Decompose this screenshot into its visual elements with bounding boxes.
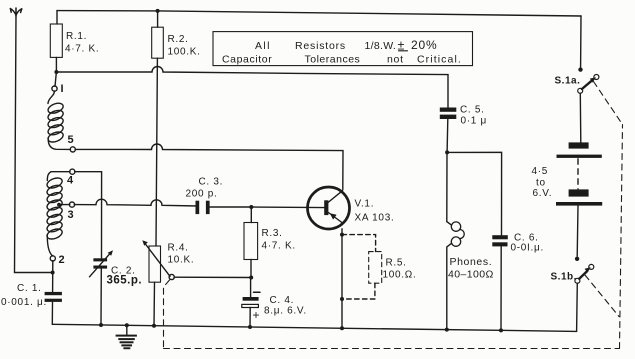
- resistor R2: [152, 9, 201, 58]
- switch S1a: [555, 16, 599, 93]
- wire emitter to bottom bus: [341, 229, 343, 329]
- svg-text:C. 4.: C. 4.: [270, 295, 295, 306]
- wire S1a to battery: [579, 93, 582, 142]
- wire terminal4 to C2 top: [75, 172, 102, 258]
- capacitor C6: [492, 233, 544, 331]
- capacitor C5: [440, 75, 487, 153]
- svg-text:All: All: [255, 40, 271, 52]
- svg-text:not: not: [387, 54, 404, 66]
- svg-text:20%: 20%: [411, 38, 437, 52]
- capacitor C2 (variable 365p): [90, 250, 143, 325]
- svg-text:5: 5: [68, 134, 74, 146]
- resistor R4 (potentiometer 10K): [142, 240, 194, 326]
- wire R2 bottom down to R4 top (passes under 3 hops): [156, 58, 157, 246]
- wire R1-junction to C5 (hops over R2 line): [56, 67, 448, 75]
- svg-text:100.K.: 100.K.: [168, 47, 201, 58]
- wire battery to S1b: [576, 206, 579, 257]
- resistor R5 (optional, dashed): [342, 235, 382, 299]
- svg-text:4·7. K.: 4·7. K.: [262, 241, 296, 252]
- svg-text:0·1 μ: 0·1 μ: [461, 116, 488, 127]
- svg-text:100.Ω.: 100.Ω.: [383, 270, 417, 281]
- svg-text:R.2.: R.2.: [168, 34, 189, 45]
- wire C3 to base with node: [210, 206, 325, 209]
- dashed gang link R4/S1a/S1b: [164, 82, 623, 349]
- svg-text:to: to: [536, 178, 546, 189]
- svg-text:200 p.: 200 p.: [186, 189, 218, 200]
- wire R4 wiper to R3/C4 node: [174, 276, 251, 278]
- svg-text:4·7. K.: 4·7. K.: [65, 44, 99, 55]
- wire antenna lead to node A: [15, 15, 51, 273]
- svg-text:R.1.: R.1.: [66, 31, 87, 42]
- svg-text:Phones.: Phones.: [450, 256, 493, 268]
- antenna: [10, 8, 21, 16]
- svg-text:V.1.: V.1.: [355, 199, 375, 210]
- svg-text:8.μ. 6.V.: 8.μ. 6.V.: [264, 306, 307, 317]
- node A: antenna/terminal2/C1 junction: [51, 261, 55, 292]
- wire node to C6 branch: [447, 152, 502, 235]
- node: R1 bottom junction: [54, 70, 58, 74]
- phones 40-100 ohm: [447, 152, 494, 330]
- svg-text:10.K.: 10.K.: [168, 255, 195, 266]
- svg-text:C. 5.: C. 5.: [460, 105, 485, 116]
- svg-text:0·001. μ.: 0·001. μ.: [1, 297, 47, 308]
- svg-text:R.5.: R.5.: [386, 258, 407, 269]
- svg-text:Critical.: Critical.: [417, 54, 462, 66]
- svg-text:4·5: 4·5: [532, 166, 549, 177]
- battery 4.5 to 6V: [532, 142, 603, 205]
- svg-text:3: 3: [68, 209, 74, 221]
- node R3/R4 wiper/C4: [249, 276, 253, 280]
- coil L1 (terminals 1,5): [47, 83, 76, 152]
- svg-text:40–100Ω: 40–100Ω: [448, 269, 494, 281]
- svg-text:Resistors: Resistors: [295, 40, 346, 52]
- svg-text:+: +: [253, 308, 260, 322]
- resistor R1: [50, 11, 99, 87]
- svg-text:0-0I.μ.: 0-0I.μ.: [511, 243, 544, 254]
- wire top bus: [57, 11, 581, 16]
- resistor R3: [244, 207, 296, 278]
- svg-text:XA 103.: XA 103.: [355, 213, 395, 224]
- node C5/phones/C6: [445, 150, 449, 154]
- capacitor C1: [1, 283, 62, 324]
- svg-text:4: 4: [67, 175, 74, 187]
- coil L2 (terminals 4,3,2 tapped): [46, 169, 75, 266]
- svg-text:C. 3.: C. 3.: [199, 177, 224, 188]
- svg-text:R.4.: R.4.: [168, 243, 189, 254]
- svg-text:S.1a.: S.1a.: [555, 76, 581, 87]
- svg-text:S.1b.: S.1b.: [551, 272, 577, 283]
- svg-text:1/8.W.: 1/8.W.: [365, 40, 397, 52]
- svg-text:365.p.: 365.p.: [107, 275, 143, 287]
- wire S1b to bottom bus: [576, 283, 579, 331]
- svg-text:Capacitor: Capacitor: [222, 54, 272, 66]
- svg-text:Tolerances: Tolerances: [305, 54, 361, 66]
- ground: [116, 325, 137, 349]
- svg-text:R.3.: R.3.: [262, 228, 283, 239]
- svg-text:2: 2: [59, 254, 65, 266]
- capacitor C3 200p: [186, 177, 224, 215]
- svg-text:6.V.: 6.V.: [533, 188, 553, 199]
- wire terminal5 to collector (hop over R2-R4 line): [75, 144, 343, 189]
- switch S1b: [551, 257, 594, 284]
- note box: tolerances: [213, 32, 473, 66]
- capacitor C4 (electrolytic 8u 6V): [242, 279, 307, 327]
- transistor V1 XA103: [308, 187, 395, 229]
- wire bottom bus: [52, 324, 576, 331]
- svg-text:I: I: [61, 83, 64, 95]
- bus junction dots: [99, 323, 103, 327]
- svg-text:C. 1.: C. 1.: [17, 283, 42, 294]
- wire terminal3 to C3 (two hops): [74, 199, 198, 206]
